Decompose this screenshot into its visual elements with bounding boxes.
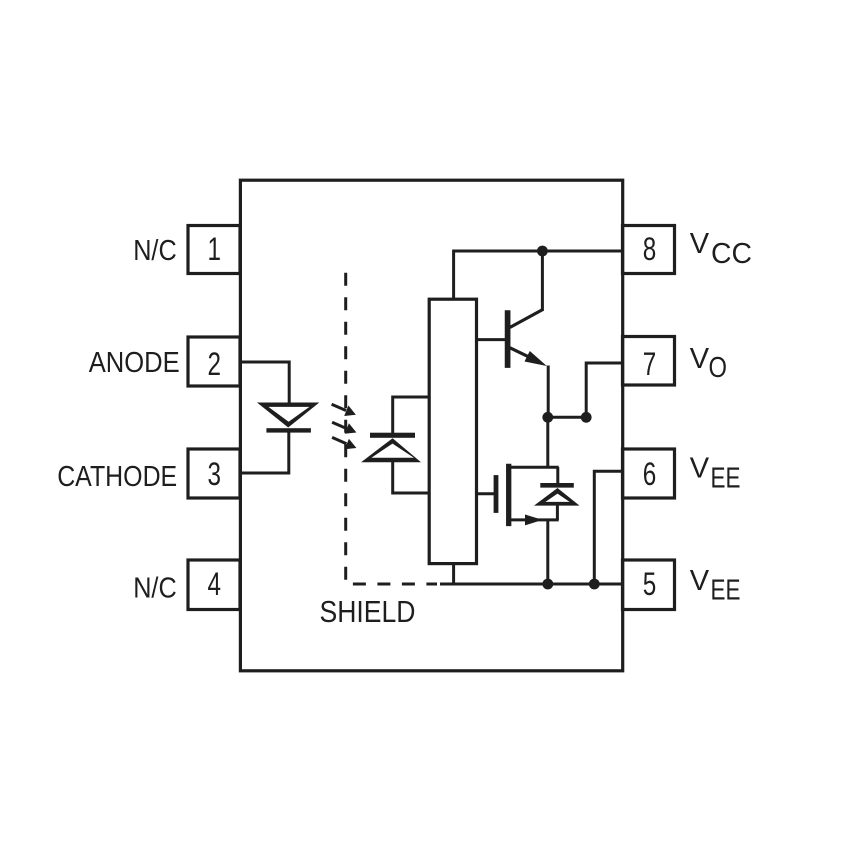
svg-text:4: 4 [208,566,222,602]
svg-text:V: V [690,452,710,484]
svg-text:CC: CC [711,238,752,270]
svg-text:8: 8 [643,231,657,267]
svg-text:2: 2 [208,346,222,382]
svg-text:6: 6 [643,456,657,492]
svg-text:1: 1 [208,231,222,267]
svg-text:SHIELD: SHIELD [320,594,416,629]
svg-text:CATHODE: CATHODE [57,461,177,493]
svg-text:EE: EE [711,575,741,607]
svg-text:N/C: N/C [133,235,177,267]
svg-text:7: 7 [643,346,657,382]
svg-text:3: 3 [208,456,222,492]
svg-text:5: 5 [643,566,657,602]
svg-text:V: V [690,343,710,375]
svg-text:EE: EE [711,462,741,494]
svg-text:ANODE: ANODE [89,347,180,379]
svg-text:V: V [690,565,710,597]
svg-text:V: V [690,228,710,260]
svg-text:O: O [709,352,728,384]
svg-text:N/C: N/C [133,572,177,604]
